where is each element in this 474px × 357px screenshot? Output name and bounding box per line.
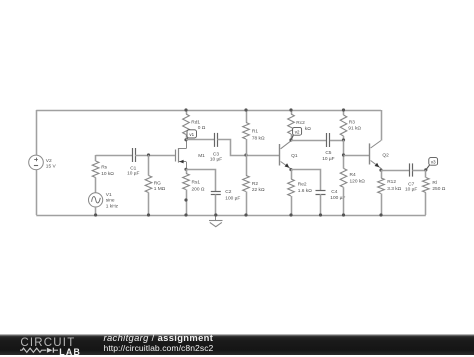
- svg-text:10 kΩ: 10 kΩ: [101, 171, 114, 177]
- node R2 bottom junction: [244, 213, 247, 216]
- wire top supply rail: [36, 110, 381, 112]
- capacitor C4 100 µF: [316, 190, 326, 192]
- node RG bottom junction: [147, 213, 150, 216]
- node output v3: [424, 168, 427, 171]
- wire Q2 emitter to C7: [381, 170, 410, 172]
- voltage source V2 15 V: [29, 155, 44, 170]
- node Q1 emitter: [289, 168, 292, 171]
- ground: [215, 215, 217, 221]
- wire base junction to Q2: [344, 155, 370, 157]
- node Re2 bottom junction: [289, 213, 292, 216]
- footer metadata text: [104, 333, 214, 354]
- svg-text:kΩ: kΩ: [305, 126, 311, 132]
- svg-text:C1: C1: [130, 165, 136, 171]
- svg-text:Q1: Q1: [291, 153, 298, 159]
- resistor Re2 1.6 kΩ: [291, 170, 293, 179]
- node M1 source: [184, 168, 187, 171]
- resistor R2 22 kΩ: [246, 155, 248, 176]
- wire Rs to C1: [96, 155, 132, 157]
- node R3 top rail junction: [342, 108, 345, 111]
- capacitor C2 100 µF: [211, 191, 221, 193]
- wire Q2 collector to top rail: [381, 110, 383, 141]
- wire C1 to M1 gate: [135, 155, 176, 157]
- node flag v3: [426, 165, 430, 170]
- svg-text:91 kΩ: 91 kΩ: [348, 126, 361, 132]
- svg-text:10 µF: 10 µF: [322, 156, 334, 162]
- node RG top junction: [147, 153, 150, 156]
- svg-text:V2: V2: [46, 158, 52, 164]
- svg-text:Rs: Rs: [101, 164, 107, 170]
- svg-text:250 Ω: 250 Ω: [432, 186, 445, 192]
- node M1 drain: [184, 138, 187, 141]
- wire Q1 emitter to C4: [291, 170, 321, 191]
- node Q2 base junction: [342, 153, 345, 156]
- svg-text:v1: v1: [189, 132, 194, 137]
- svg-text:C4: C4: [331, 189, 337, 195]
- transistor Q1 NPN: [279, 144, 281, 166]
- resistor Rs1 200 Ω: [186, 169, 188, 173]
- resistor R3 91 kΩ: [343, 110, 345, 115]
- wire R1 junction to Q1 base: [246, 155, 280, 157]
- capacitor C7 10 µF: [409, 163, 411, 176]
- wire bottom ground rail: [36, 215, 426, 217]
- wire C2 to bottom rail: [215, 194, 217, 215]
- svg-text:10 µF: 10 µF: [210, 156, 222, 162]
- resistor RG 1 MΩ: [148, 155, 150, 176]
- svg-text:1.6 kΩ: 1.6 kΩ: [298, 188, 312, 194]
- wire M1 drain to C3: [186, 139, 215, 141]
- svg-text:100 µF: 100 µF: [225, 196, 240, 202]
- resistor R4 120 kΩ: [343, 140, 345, 168]
- svg-text:Q2: Q2: [382, 152, 389, 158]
- svg-text:v3: v3: [431, 160, 436, 165]
- node R1 R2 base junction: [244, 153, 247, 156]
- voltage source V1 sine 1 kHz: [89, 193, 103, 207]
- node V1 bottom junction: [94, 213, 97, 216]
- svg-text:0 Ω: 0 Ω: [198, 125, 206, 131]
- svg-text:10 µF: 10 µF: [405, 186, 417, 192]
- svg-text:R4: R4: [350, 172, 356, 178]
- resistor Rc2: [291, 110, 293, 114]
- svg-text:R3: R3: [349, 119, 355, 125]
- resistor Rd1: [186, 110, 188, 114]
- wire left rail upper: [36, 110, 38, 155]
- wire left rail lower: [36, 170, 38, 215]
- svg-text:M1: M1: [198, 153, 205, 159]
- node Rs1 lower wire junction: [184, 198, 187, 201]
- capacitor C3 10 µF: [214, 133, 216, 147]
- node Q1 collector: [289, 138, 292, 141]
- node R3 R4 C5 junction: [342, 138, 345, 141]
- node R4 bottom junction: [342, 213, 345, 216]
- node Q2 emitter: [379, 169, 382, 172]
- svg-text:1 MΩ: 1 MΩ: [154, 186, 166, 192]
- svg-text:Rl: Rl: [432, 180, 437, 186]
- svg-text:15 V: 15 V: [46, 164, 57, 170]
- svg-text:78 kΩ: 78 kΩ: [252, 135, 265, 141]
- node Rs1 bottom junction: [184, 213, 187, 216]
- node flag v1: [186, 138, 188, 140]
- svg-text:RG: RG: [154, 181, 161, 187]
- resistor R12 3.3 kΩ: [381, 170, 383, 178]
- node C4 bottom junction: [319, 213, 322, 216]
- capacitor C5 10 µF: [326, 133, 328, 147]
- resistor Rs 10 kΩ: [95, 155, 97, 161]
- svg-text:R2: R2: [252, 181, 258, 187]
- svg-text:120 kΩ: 120 kΩ: [350, 179, 366, 185]
- svg-text:200 Ω: 200 Ω: [192, 186, 205, 192]
- svg-text:22 kΩ: 22 kΩ: [252, 187, 265, 193]
- svg-text:R12: R12: [387, 179, 396, 185]
- node ground junction: [214, 213, 217, 216]
- node Rd1 top rail junction: [184, 108, 187, 111]
- node Rc2 top rail junction: [289, 108, 292, 111]
- node flag v2: [291, 135, 293, 140]
- svg-text:1 kHz: 1 kHz: [106, 203, 119, 209]
- wire Q1 collector to C5: [291, 140, 327, 142]
- svg-text:Rc2: Rc2: [296, 120, 305, 126]
- wire C5 to R3 R4 junction: [330, 140, 344, 142]
- transistor M1 NMOS: [175, 150, 177, 162]
- svg-text:Re2: Re2: [298, 181, 307, 187]
- capacitor C1 10 µF: [132, 148, 134, 162]
- svg-text:V1: V1: [106, 192, 112, 198]
- node R12 bottom junction: [379, 213, 382, 216]
- wire C7 to output node: [412, 170, 425, 172]
- svg-text:sine: sine: [106, 198, 115, 204]
- svg-text:Rd1: Rd1: [191, 119, 200, 125]
- CircuitLab logo resistor-diode glyph: [20, 347, 60, 355]
- svg-text:R1: R1: [252, 129, 258, 135]
- resistor Rl 250 Ω: [425, 170, 427, 178]
- wire M1 source to C2: [186, 170, 216, 192]
- transistor Q2 NPN: [369, 143, 371, 164]
- CircuitLab logo text: [20, 338, 75, 348]
- svg-text:3.3 kΩ: 3.3 kΩ: [387, 186, 401, 192]
- node R1 top rail junction: [244, 108, 247, 111]
- wire V1 to bottom rail: [95, 207, 97, 215]
- svg-text:C5: C5: [325, 150, 331, 156]
- svg-text:10 µF: 10 µF: [127, 171, 139, 177]
- svg-text:C2: C2: [225, 189, 231, 195]
- resistor R1 78 kΩ: [246, 110, 248, 123]
- wire C3 to R1 junction: [218, 140, 247, 156]
- svg-text:Rs1: Rs1: [192, 180, 201, 186]
- wire C4 to bottom rail: [320, 194, 322, 215]
- svg-text:v2: v2: [295, 130, 300, 135]
